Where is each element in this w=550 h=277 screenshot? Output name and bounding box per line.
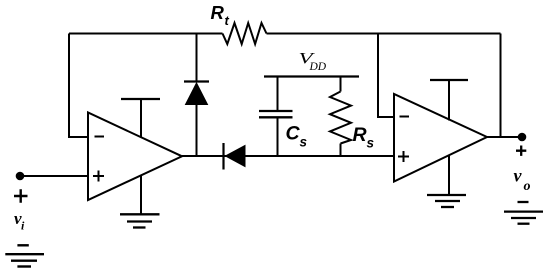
input plus polarity sign xyxy=(14,189,28,202)
label vo xyxy=(514,166,531,195)
svg-text:s: s xyxy=(300,135,308,150)
capacitor Cs xyxy=(259,77,293,157)
svg-text:o: o xyxy=(524,179,531,194)
wire left vertical feedback xyxy=(68,34,70,138)
input minus polarity sign xyxy=(17,244,28,246)
svg-text:s: s xyxy=(367,136,375,151)
output minus polarity sign xyxy=(518,201,529,203)
svg-text:t: t xyxy=(225,13,230,28)
svg-text:R: R xyxy=(353,124,367,146)
label Cs xyxy=(286,123,308,150)
svg-text:C: C xyxy=(286,123,301,145)
U1 ground xyxy=(120,176,160,228)
U1 minus sign xyxy=(95,136,105,138)
op-amp U1 xyxy=(88,113,182,201)
U2 minus sign xyxy=(400,116,410,118)
wire U2 output xyxy=(487,136,522,138)
svg-text:DD: DD xyxy=(309,61,327,73)
U1 plus sign xyxy=(93,171,104,182)
diode D2 (horizontal, cathode left) xyxy=(224,143,246,170)
wire U1 output to U2 non-inverting input xyxy=(182,155,394,157)
svg-text:v: v xyxy=(514,166,523,186)
output ground xyxy=(504,212,543,224)
resistor Rt xyxy=(223,23,267,44)
wire U2 inverting input from top rail xyxy=(378,34,394,118)
wire to U1 inverting input xyxy=(68,136,88,138)
label Rs xyxy=(353,124,375,151)
wire top-left horizontal (feedback top rail, left segment) xyxy=(69,33,223,35)
U1 positive supply xyxy=(121,99,160,138)
VDD rail xyxy=(264,75,359,77)
wire top-right horizontal (feedback top rail, right segment) xyxy=(267,33,501,35)
U2 plus sign xyxy=(398,151,409,162)
U2 ground xyxy=(427,155,466,208)
output terminal dot xyxy=(518,133,527,142)
diode D1 (vertical, cathode up) with leads xyxy=(184,34,209,157)
input ground xyxy=(5,254,44,266)
input terminal dot xyxy=(16,172,25,181)
resistor Rs xyxy=(330,77,351,157)
U2 positive supply xyxy=(430,80,468,121)
wire input to U1 non-inverting input xyxy=(20,175,88,177)
op-amp U2 xyxy=(394,94,487,182)
label Rt xyxy=(211,2,230,28)
label VDD xyxy=(299,50,327,73)
label vi xyxy=(14,209,25,233)
svg-text:R: R xyxy=(211,2,225,23)
output plus polarity sign xyxy=(516,146,526,156)
wire right vertical feedback xyxy=(500,34,502,138)
